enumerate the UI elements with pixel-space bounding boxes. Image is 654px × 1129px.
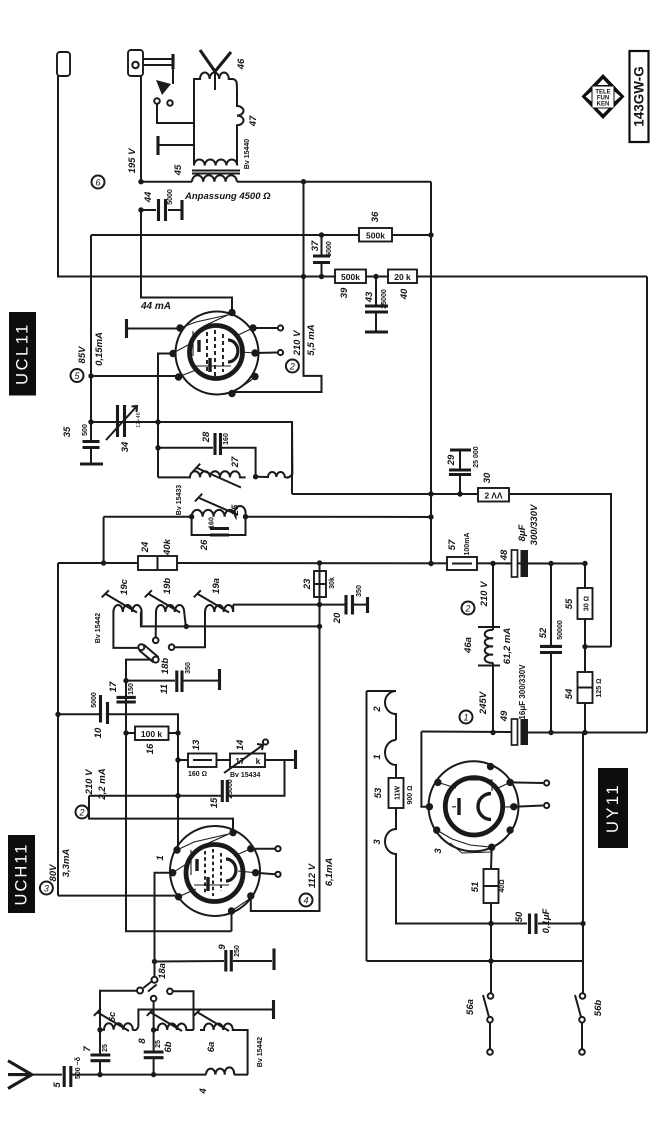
coupling coil 4 (206, 1067, 234, 1074)
wire UY anode feed (421, 732, 426, 807)
wire blade to cap17 node (126, 660, 232, 932)
svg-text:39: 39 (339, 287, 350, 298)
junction 195V (138, 179, 143, 184)
junction 13 line (175, 757, 180, 762)
capacitor 29 (450, 448, 471, 451)
svg-text:27: 27 (230, 456, 241, 468)
wire 2M drop join (585, 646, 611, 648)
wire 245V line (421, 732, 647, 733)
svg-text:2,2 mA: 2,2 mA (97, 768, 108, 800)
svg-text:2: 2 (464, 604, 470, 614)
coil 19a arrow (194, 590, 229, 612)
wire UCH left pin (155, 873, 173, 962)
svg-text:350: 350 (356, 585, 363, 597)
capacitor 9 (226, 949, 274, 972)
choke 46a core (478, 627, 500, 666)
wire antenna lead (32, 1074, 62, 1076)
svg-text:UCH11: UCH11 (13, 843, 31, 906)
svg-text:6a: 6a (206, 1042, 217, 1053)
node 1 voltage circle (460, 711, 473, 724)
capacitor 48 electrolytic (512, 550, 518, 577)
coil 19b arrow (145, 590, 180, 612)
coil 47 (237, 91, 244, 165)
svg-text:9: 9 (217, 944, 228, 950)
wire cap8 stem (153, 1030, 155, 1075)
capacitor 11 line (126, 680, 218, 682)
capacitor 37 (321, 235, 323, 255)
svg-text:3,3mA: 3,3mA (61, 849, 72, 878)
svg-text:25: 25 (230, 504, 241, 516)
junction V4 rail563 (428, 561, 433, 566)
node 2 voltage circle PSU (462, 602, 475, 615)
capacitor 10 line (58, 714, 178, 795)
terminal UY a (510, 781, 543, 784)
terminal UCL b (255, 352, 277, 355)
tube UY11 inner wires (437, 782, 514, 853)
svg-text:23: 23 (302, 578, 313, 590)
capacitor 52 (550, 564, 552, 733)
svg-text:19a: 19a (211, 578, 222, 594)
wire 44mA branch (141, 210, 232, 309)
node 2 voltage circle UCH (76, 806, 89, 819)
svg-text:k: k (256, 756, 261, 766)
svg-text:56a: 56a (465, 999, 476, 1015)
wire cap15 line left ext (89, 795, 178, 797)
wire contact to 6b (153, 1001, 155, 1030)
junction coil27 right (253, 474, 258, 479)
svg-text:11W: 11W (395, 786, 402, 800)
svg-text:1: 1 (155, 855, 166, 860)
antenna (8, 1061, 32, 1089)
svg-text:4: 4 (303, 896, 308, 906)
wire plug pair top (143, 58, 173, 60)
svg-text:1: 1 (372, 754, 383, 759)
svg-text:11: 11 (159, 684, 170, 694)
svg-text:19b: 19b (162, 578, 173, 595)
capacitor 17 plates (117, 697, 136, 702)
junction osc-V4 (428, 514, 433, 519)
junction 49 b (548, 730, 553, 735)
junction rail x320 (317, 560, 322, 565)
node 5 voltage circle (71, 369, 84, 382)
svg-text:54: 54 (564, 688, 575, 699)
pot 14 terminal (263, 739, 268, 744)
svg-text:160: 160 (223, 433, 230, 445)
junction cap17 node (123, 678, 128, 683)
svg-text:3: 3 (433, 848, 444, 854)
junction osc feed rail (101, 560, 106, 565)
svg-text:112 V: 112 V (307, 863, 318, 888)
svg-text:57: 57 (447, 539, 458, 550)
contact circle a (154, 98, 160, 104)
tube UCH11 outer (170, 826, 260, 916)
svg-text:80V: 80V (48, 864, 59, 882)
svg-text:19c: 19c (119, 578, 130, 595)
svg-text:250: 250 (234, 945, 241, 957)
coil 27 arrow (193, 464, 241, 488)
svg-text:36: 36 (370, 211, 381, 222)
svg-text:Bv 15442: Bv 15442 (257, 1037, 264, 1067)
resistor 55 30ohm (578, 588, 593, 619)
resistor 16 100k (126, 732, 178, 734)
svg-text:UY11: UY11 (604, 783, 622, 833)
svg-text:500 ~δ: 500 ~δ (75, 1057, 82, 1079)
wire dropper left vertical (366, 691, 368, 961)
speaker cone arms (200, 50, 231, 72)
junction cap15 left (175, 793, 180, 798)
switch 18b blade (138, 644, 144, 650)
svg-text:52: 52 (538, 627, 549, 638)
connector arrow triangle (156, 80, 171, 95)
svg-text:6: 6 (95, 178, 100, 188)
junction 36 left (319, 232, 324, 237)
wire 19c left drop to switch (113, 612, 138, 648)
wire UCH bottom pin (231, 911, 233, 931)
svg-text:KEN: KEN (597, 102, 610, 108)
contact 18b upper (153, 638, 159, 644)
svg-text:16μF 300/330V: 16μF 300/330V (518, 664, 527, 720)
svg-text:5000: 5000 (167, 189, 174, 205)
wire osc line y517 (246, 516, 432, 518)
svg-text:30: 30 (482, 472, 493, 483)
svg-text:Bv 15442: Bv 15442 (95, 613, 102, 643)
tube UCL11 internals (193, 330, 238, 376)
switch 18a stem (154, 962, 156, 978)
IF sec coil 19c (113, 605, 141, 625)
junction tune x158 (155, 419, 160, 424)
svg-text:100mA: 100mA (464, 533, 471, 556)
capacitor 8 (144, 1052, 164, 1058)
coil 25 arrow (195, 494, 238, 515)
wire 54 down (584, 703, 586, 733)
svg-text:2: 2 (372, 706, 383, 713)
contact circle b (167, 100, 172, 105)
svg-text:56b: 56b (593, 1000, 604, 1017)
field coil 46 (194, 73, 237, 124)
svg-text:12+46: 12+46 (136, 412, 142, 427)
capacitor 15 (222, 780, 227, 802)
svg-text:1: 1 (463, 713, 468, 723)
svg-text:8: 8 (137, 1038, 148, 1044)
junction 29 (457, 491, 462, 496)
junction 18a top (152, 959, 157, 964)
wire triode grid left (158, 354, 173, 478)
svg-text:50: 50 (514, 911, 525, 922)
svg-text:2: 2 (289, 362, 295, 372)
svg-text:500k: 500k (366, 231, 385, 241)
junction 36 right (428, 232, 433, 237)
svg-text:14: 14 (235, 739, 246, 750)
svg-text:6c: 6c (107, 1011, 118, 1022)
svg-text:40Ω: 40Ω (499, 879, 506, 892)
svg-text:30k: 30k (329, 577, 336, 589)
terminal UCH b (256, 873, 275, 875)
wire V5 x303 (232, 182, 322, 392)
coil 6a arrow (194, 1009, 229, 1031)
wire 210V anode line UCH (89, 796, 233, 830)
svg-text:29: 29 (446, 454, 457, 466)
capacitor 49 electrolytic (512, 719, 518, 745)
node 6 voltage circle (92, 176, 105, 189)
junction 48 right a (548, 561, 553, 566)
junction top right (301, 179, 306, 184)
wire anode line 195V (141, 75, 431, 182)
svg-text:7: 7 (82, 1046, 93, 1052)
capacitor 5 (64, 1066, 71, 1087)
pot 14 arrow (224, 744, 263, 773)
terminal UY b (514, 806, 543, 807)
resistor 23 30k (314, 571, 326, 597)
svg-text:48: 48 (499, 549, 510, 561)
capacitor 26 bracket (192, 517, 246, 535)
choke 46a (485, 564, 493, 733)
svg-text:300/330V: 300/330V (529, 504, 540, 545)
wire right return vertical (582, 733, 584, 962)
terminal UCH a (251, 848, 275, 850)
IF primary coil 27 (158, 471, 246, 477)
antenna coil 6c (100, 1010, 272, 1031)
svg-text:55: 55 (564, 598, 575, 609)
svg-text:40k: 40k (162, 538, 173, 556)
svg-text:195 V: 195 V (127, 148, 138, 173)
node 4 voltage circle (300, 894, 313, 907)
plug prong bar (171, 54, 174, 69)
coil 6c arrow (94, 1009, 129, 1031)
wire left vertical lower (57, 563, 59, 896)
svg-text:40: 40 (399, 288, 410, 300)
switch 56a (490, 961, 492, 993)
tube UCH11 inner wires (173, 833, 256, 911)
junction coil6c left (97, 1027, 102, 1032)
svg-text:25000: 25000 (227, 779, 234, 799)
junction tune left (88, 419, 93, 424)
wire contact to 19a (175, 612, 206, 647)
junction coil25 left (189, 514, 194, 519)
black label UCH11 (8, 835, 35, 913)
svg-text:3: 3 (44, 884, 49, 894)
wire 36 line y234.5 (392, 234, 431, 236)
resistor 53 11W (389, 778, 404, 808)
junction heater node (488, 921, 493, 926)
svg-text:210 V: 210 V (84, 769, 95, 795)
wire blade left L (100, 991, 137, 1030)
primary coil 45 (194, 145, 237, 166)
potentiometer 14 17k (230, 754, 265, 768)
resistor 57 100mA (447, 557, 477, 570)
heater dropper 53 element (385, 691, 491, 924)
wire inner left vertical (90, 235, 92, 442)
svg-text:160 Ω: 160 Ω (188, 771, 207, 778)
black label UCL11 (9, 312, 36, 396)
wire UY cathode down (490, 847, 493, 869)
svg-text:20 k: 20 k (394, 272, 411, 282)
resistor 39 500k (335, 270, 366, 284)
wire right vertical x647 (646, 277, 648, 733)
svg-text:17: 17 (108, 681, 119, 692)
svg-text:500: 500 (82, 424, 89, 436)
wire osc feed left (104, 517, 192, 563)
svg-text:45: 45 (173, 164, 184, 176)
resistor 13 160ohm (178, 759, 230, 761)
junction 19b right (184, 624, 189, 629)
anpassung coil 45a (192, 175, 237, 182)
junction 39-40 (373, 274, 378, 279)
wire osc tune line y422 (91, 422, 292, 494)
capacitor 44 (141, 209, 182, 211)
junction 55-54 (582, 644, 587, 649)
wire pot right to T (265, 759, 294, 761)
chassis T-bar cap (156, 136, 159, 155)
svg-text:210 V: 210 V (479, 581, 490, 607)
dropper bracket (367, 690, 397, 692)
capacitor 20 (346, 595, 368, 615)
junction coil25 right (243, 514, 248, 519)
chassis T-bar ant (272, 1000, 275, 1019)
resistor 40 20k (388, 270, 417, 284)
svg-text:61,2 mA: 61,2 mA (502, 628, 513, 665)
black label UY11 (598, 768, 628, 848)
svg-text:51: 51 (470, 882, 481, 893)
svg-text:245V: 245V (478, 691, 489, 715)
wire 19b right drop (185, 625, 187, 626)
svg-text:6b: 6b (163, 1041, 174, 1052)
svg-text:210 V: 210 V (292, 330, 303, 356)
tube UY11 inner envelope (445, 778, 502, 835)
variable capacitor 34 (118, 405, 125, 437)
tube UCH11 internals (191, 849, 236, 896)
svg-text:44: 44 (143, 191, 154, 203)
terminal UCL a (253, 327, 277, 329)
svg-text:8μF: 8μF (517, 524, 528, 541)
junction rail 56a (488, 958, 493, 963)
svg-text:20: 20 (332, 612, 343, 624)
tube UY11 outer (429, 761, 519, 851)
model label 143GW-G (630, 51, 649, 142)
svg-text:18b: 18b (160, 658, 171, 675)
svg-text:Bv 15433: Bv 15433 (176, 485, 183, 515)
plug contact circle (132, 62, 138, 68)
svg-text:28: 28 (201, 431, 212, 443)
svg-text:34: 34 (120, 441, 131, 452)
svg-text:85V: 85V (77, 346, 88, 364)
wire cap7 stem (99, 1030, 101, 1075)
capacitor 10 (101, 695, 108, 724)
junction 16 left (123, 730, 128, 735)
wire contact right to 6b right (173, 991, 194, 1030)
capacitor 28 (158, 448, 256, 477)
resistor 30 2M (478, 488, 509, 502)
switch 56b (582, 962, 584, 994)
wire V4 vertical x431 (430, 182, 432, 564)
junction det20 (317, 602, 322, 607)
svg-text:5000: 5000 (91, 692, 98, 708)
tube UCL11 inner envelope (190, 326, 243, 379)
node 3 voltage circle (40, 882, 53, 895)
svg-text:43: 43 (364, 291, 375, 303)
junction rail x321 (319, 274, 324, 279)
AVC rail y563 (58, 562, 585, 565)
svg-text:5,5 mA: 5,5 mA (306, 324, 317, 355)
svg-text:13: 13 (191, 739, 202, 750)
svg-text:150: 150 (128, 683, 135, 695)
svg-text:25: 25 (102, 1044, 109, 1052)
junction 48 right b (582, 561, 587, 566)
tube UCH11 pins (169, 829, 259, 915)
switch 18a blade (152, 977, 158, 983)
svg-text:53: 53 (373, 787, 384, 798)
junction cap44 (138, 207, 143, 212)
junction coil6b left (151, 1027, 156, 1032)
svg-text:25000: 25000 (381, 289, 388, 309)
svg-text:30 Ω: 30 Ω (584, 596, 591, 611)
bottom rail (367, 960, 584, 962)
svg-text:3: 3 (372, 839, 383, 845)
wire left top vertical (58, 76, 647, 277)
svg-text:500k: 500k (341, 272, 360, 282)
svg-text:25: 25 (155, 1040, 162, 1048)
resistor 54 125ohm (578, 672, 593, 703)
wire grid cap (127, 328, 178, 330)
svg-text:25 000: 25 000 (473, 446, 480, 468)
resistor 36 500k (359, 228, 392, 242)
junction 49 c (582, 730, 587, 735)
tube UCL11 inner wires (173, 313, 255, 393)
IF link coil (256, 422, 293, 478)
svg-text:26: 26 (199, 539, 210, 551)
capacitor 15 line (178, 760, 285, 796)
junction 19coil common (317, 624, 322, 629)
capacitor 11 (177, 669, 220, 692)
svg-text:5: 5 (52, 1082, 63, 1088)
svg-text:50000: 50000 (557, 620, 564, 640)
svg-text:Bv 15440: Bv 15440 (244, 139, 251, 169)
svg-text:37: 37 (310, 240, 321, 251)
svg-text:100 k: 100 k (141, 729, 163, 739)
wire contact to transformer (157, 104, 194, 145)
junction rail x304 (301, 274, 306, 279)
junction cap28 (155, 445, 160, 450)
wire cap20 line (233, 604, 366, 606)
contact 18a right (167, 989, 173, 995)
junction cap10 left (55, 712, 60, 717)
svg-text:35: 35 (62, 426, 73, 437)
svg-text:UCL11: UCL11 (14, 322, 32, 385)
transformer core Bv15440 (192, 171, 240, 174)
svg-text:5000: 5000 (326, 241, 333, 257)
contact 18a lower (151, 996, 157, 1002)
wire plug pair bottom (143, 64, 173, 66)
wire UCH botleft pin 80V (58, 895, 175, 897)
svg-text:49: 49 (499, 710, 510, 722)
svg-text:4: 4 (198, 1088, 209, 1095)
wire screen line y236 (91, 234, 359, 236)
capacitor 7 (91, 1055, 111, 1061)
svg-text:15: 15 (209, 797, 220, 808)
junction choke top (490, 561, 495, 566)
wire T-bar to core (158, 144, 194, 146)
tube UCL11 outer (176, 312, 259, 395)
wire 48 to 55 (524, 564, 585, 589)
resistor 51 40ohm (484, 869, 499, 903)
svg-text:46: 46 (236, 58, 247, 70)
svg-text:46a: 46a (463, 637, 474, 654)
svg-text:0,1μF: 0,1μF (541, 908, 552, 933)
svg-text:350: 350 (185, 662, 192, 674)
wire 51 to node (490, 903, 492, 962)
speaker plug box (128, 50, 143, 76)
junction bus cap8 (151, 1072, 156, 1077)
tube UCL11 pins (169, 309, 258, 397)
